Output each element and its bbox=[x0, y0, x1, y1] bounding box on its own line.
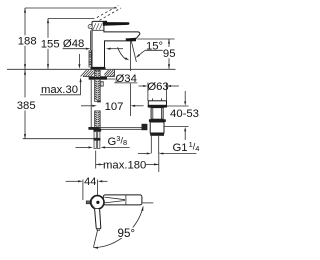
svg-text:40-53: 40-53 bbox=[170, 108, 199, 120]
svg-text:Ø63: Ø63 bbox=[147, 81, 168, 93]
svg-text:Ø34: Ø34 bbox=[116, 73, 137, 85]
svg-text:188: 188 bbox=[18, 36, 37, 48]
svg-text:107: 107 bbox=[105, 101, 124, 113]
svg-text:max.30: max.30 bbox=[41, 84, 78, 96]
svg-text:Ø48: Ø48 bbox=[63, 38, 84, 50]
svg-text:15°: 15° bbox=[146, 40, 163, 52]
svg-text:max.180: max.180 bbox=[103, 159, 146, 171]
svg-text:155: 155 bbox=[41, 39, 60, 51]
svg-text:95°: 95° bbox=[118, 227, 136, 240]
svg-text:95: 95 bbox=[163, 48, 176, 60]
svg-text:385: 385 bbox=[17, 100, 36, 112]
svg-text:44: 44 bbox=[84, 176, 96, 188]
